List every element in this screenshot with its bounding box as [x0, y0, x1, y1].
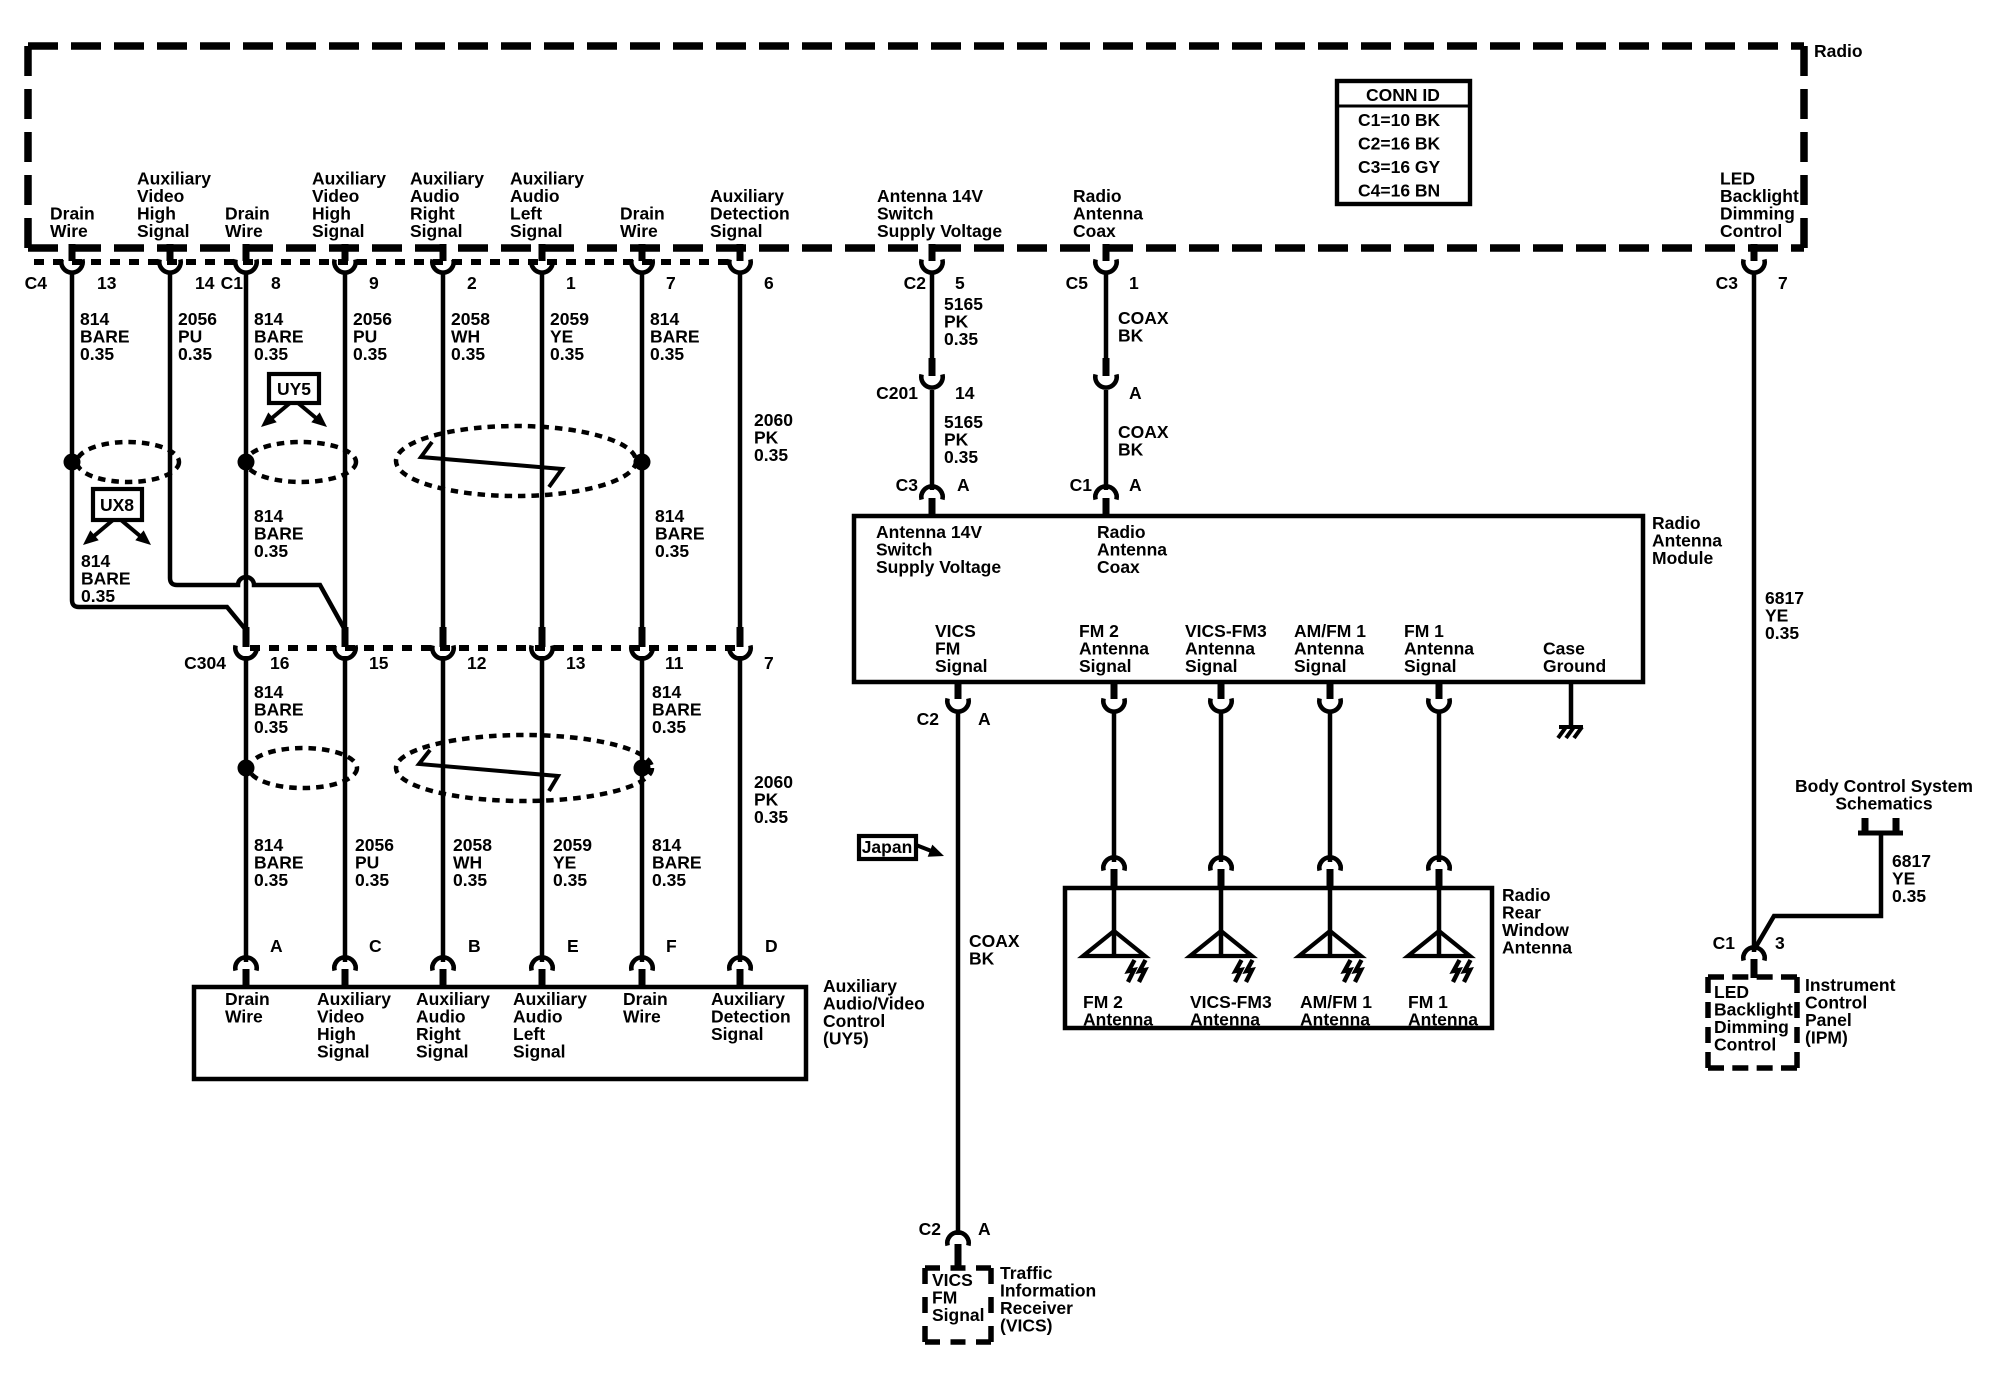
C201 labels: [876, 383, 975, 403]
svg-text:Signal: Signal: [1404, 656, 1457, 676]
svg-text:0.35: 0.35: [553, 870, 587, 890]
svg-text:1: 1: [1129, 273, 1139, 293]
C3-A labels: [896, 475, 970, 495]
connector pin 1 at radio box: [531, 244, 552, 273]
svg-text:6: 6: [764, 273, 774, 293]
rear window antenna box name: [1502, 885, 1572, 958]
wire label 814 BARE: [254, 309, 304, 364]
UY5 pin letters: [270, 936, 778, 956]
wire label 814 BARE mid wire 7: [655, 506, 705, 561]
wire below C304 x=443: [441, 656, 446, 962]
svg-text:C304: C304: [184, 653, 226, 673]
svg-text:Signal: Signal: [513, 1042, 566, 1062]
wire label COAX BK upper: [1118, 308, 1169, 346]
connector below antenna module x=958: [947, 682, 968, 712]
svg-text:Signal: Signal: [510, 221, 563, 241]
svg-text:14: 14: [955, 383, 975, 403]
connector pin 7 at radio box: [1743, 244, 1764, 273]
connector pin 2 at radio box: [432, 244, 453, 273]
svg-text:A: A: [1129, 475, 1142, 495]
svg-text:7: 7: [666, 273, 676, 293]
svg-text:5: 5: [955, 273, 965, 293]
in-line connector dotted strip C4/C1: [34, 259, 731, 265]
module pin label Antenna 14V Switch Supply Voltage: [876, 522, 1001, 577]
UY5 box pin label Auxiliary Audio Left Signal: [513, 989, 587, 1062]
svg-text:0.35: 0.35: [254, 541, 288, 561]
connector C1 pin 3 at instrument panel: [1743, 947, 1764, 978]
svg-text:0.35: 0.35: [655, 541, 689, 561]
C304 row labels: [184, 653, 774, 673]
Traffic Information Receiver dashed box: [925, 1268, 991, 1342]
wire label 814 BARE below C304-11: [652, 682, 702, 737]
svg-text:0.35: 0.35: [754, 445, 788, 465]
svg-text:(UY5): (UY5): [823, 1029, 869, 1049]
UY5 box name: [823, 976, 925, 1049]
svg-text:C1: C1: [221, 273, 244, 293]
svg-text:C2: C2: [904, 273, 927, 293]
twist arrow inside ellipse: [421, 442, 562, 487]
pin label LED Backlight Dimming Control: [1720, 169, 1799, 242]
pin label Drain Wire: [225, 204, 270, 242]
Radio module dashed box: [28, 46, 1804, 248]
connector C304 pin 7: [729, 627, 750, 659]
svg-text:Ground: Ground: [1543, 656, 1606, 676]
svg-text:0.35: 0.35: [353, 344, 387, 364]
svg-text:7: 7: [764, 653, 774, 673]
connector pin 6 at radio box: [729, 244, 750, 273]
svg-text:BK: BK: [1118, 440, 1144, 460]
svg-text:0.35: 0.35: [451, 344, 485, 364]
svg-text:Coax: Coax: [1097, 557, 1140, 577]
connector C304 pin 12: [432, 627, 453, 659]
svg-text:D: D: [765, 936, 778, 956]
junction dot wire x=642: [634, 454, 651, 471]
svg-text:C4: C4: [25, 273, 48, 293]
connector below antenna module x=1439: [1428, 682, 1449, 712]
antenna label FM 1: [1408, 992, 1478, 1030]
UX8 arrow right: [121, 520, 151, 545]
svg-text:Signal: Signal: [711, 1024, 764, 1044]
svg-text:A: A: [957, 475, 970, 495]
wire drain 7 down: [640, 272, 645, 632]
wire 5165 PK upper: [930, 272, 935, 360]
connector at rear window antenna x=1330: [1319, 857, 1340, 889]
svg-text:Signal: Signal: [1185, 656, 1238, 676]
svg-text:A: A: [978, 709, 991, 729]
svg-text:Antenna: Antenna: [1408, 1010, 1478, 1030]
svg-text:Antenna: Antenna: [1502, 938, 1572, 958]
svg-text:(IPM): (IPM): [1805, 1028, 1848, 1048]
svg-text:A: A: [1129, 383, 1142, 403]
twisted pair ellipse 16/15: [249, 748, 357, 788]
svg-text:0.35: 0.35: [650, 344, 684, 364]
connector pin A at UY5 box: [235, 957, 256, 988]
twisted pair ellipse 8/9: [246, 442, 356, 482]
wire radio antenna coax lower: [1104, 390, 1109, 490]
svg-text:Signal: Signal: [312, 221, 365, 241]
svg-text:Control: Control: [1714, 1035, 1776, 1055]
wire label 2056 PU: [178, 309, 217, 364]
pin label Antenna 14V Switch Supply Voltage: [877, 186, 1002, 241]
wire label 5165 PK lower: [944, 412, 983, 467]
wire below C304 x=542: [540, 656, 545, 962]
case ground wire: [1569, 684, 1574, 727]
connector pin 8 at radio box: [235, 244, 256, 273]
UY5 arrow left: [261, 403, 290, 427]
module pin label Radio Antenna Coax: [1097, 522, 1167, 577]
off-page reference bracket: [1858, 818, 1903, 833]
Traffic Information Receiver name: [1000, 1263, 1096, 1336]
antenna symbol x=1330: [1299, 890, 1362, 982]
UY5 option callout box: [269, 374, 319, 403]
pin label Auxiliary Video High Signal: [312, 169, 386, 242]
svg-text:C3: C3: [896, 475, 919, 495]
connector pin 13 at radio box: [61, 244, 82, 273]
connector pin 9 at radio box: [334, 244, 355, 273]
svg-text:UY5: UY5: [277, 379, 311, 399]
connector C304 pin 13: [531, 627, 552, 659]
connector C304 pin 15: [334, 627, 355, 659]
connector at rear window antenna x=1221: [1210, 857, 1231, 889]
connector pin C at UY5 box: [334, 957, 355, 988]
svg-text:A: A: [978, 1219, 991, 1239]
svg-text:BK: BK: [1118, 326, 1144, 346]
svg-text:Radio: Radio: [1814, 41, 1863, 61]
svg-text:0.35: 0.35: [355, 870, 389, 890]
wire below C304 x=740: [738, 656, 743, 962]
svg-text:0.35: 0.35: [1892, 886, 1926, 906]
antenna wire x=1114: [1112, 712, 1117, 862]
svg-text:0.35: 0.35: [178, 344, 212, 364]
svg-text:B: B: [468, 936, 481, 956]
svg-text:0.35: 0.35: [80, 344, 114, 364]
connector below antenna module x=1221: [1210, 682, 1231, 712]
wire label 814 BARE: [80, 309, 130, 364]
svg-text:12: 12: [467, 653, 487, 673]
wire radio antenna coax upper: [1104, 272, 1109, 360]
connector C304 pin 11: [631, 627, 652, 659]
wire label 2056 PU lower: [355, 835, 394, 890]
Japan callout box: [859, 836, 916, 859]
svg-text:E: E: [567, 936, 579, 956]
module pin label FM 2: [1079, 621, 1149, 676]
pin label Auxiliary Video High Signal: [137, 169, 211, 242]
junction dot lower x=246: [238, 760, 255, 777]
connector C2 pin A at VICS receiver: [947, 1232, 968, 1269]
wire label 6817 YE upper: [1765, 588, 1804, 643]
svg-text:Supply Voltage: Supply Voltage: [877, 221, 1002, 241]
connector at rear window antenna x=1114: [1103, 857, 1124, 889]
wire label 814 BARE: [650, 309, 700, 364]
svg-text:UX8: UX8: [100, 495, 134, 515]
connector pin B at UY5 box: [432, 957, 453, 988]
svg-text:C2: C2: [919, 1219, 942, 1239]
module pin label FM 1: [1404, 621, 1474, 676]
svg-text:15: 15: [369, 653, 389, 673]
wire 2059 YE 1 down: [540, 272, 545, 632]
svg-text:Signal: Signal: [932, 1305, 985, 1325]
svg-text:0.35: 0.35: [754, 807, 788, 827]
svg-text:C1: C1: [1713, 933, 1736, 953]
svg-text:Supply Voltage: Supply Voltage: [876, 557, 1001, 577]
UX8 arrow left: [83, 520, 113, 545]
antenna label AM/FM 1: [1300, 992, 1372, 1030]
UY5 box pin label Drain Wire: [225, 989, 270, 1027]
ground symbol: [1558, 727, 1583, 738]
wire label 814 BARE lower: [254, 835, 304, 890]
svg-text:C2=16 BK: C2=16 BK: [1358, 134, 1441, 154]
connector C304 pin 16: [235, 627, 256, 659]
svg-text:3: 3: [1775, 933, 1785, 953]
svg-text:16: 16: [270, 653, 290, 673]
module name label: [1652, 513, 1722, 568]
svg-text:Signal: Signal: [317, 1042, 370, 1062]
svg-text:Signal: Signal: [1294, 656, 1347, 676]
pin label Auxiliary Detection Signal: [710, 186, 790, 241]
svg-text:14: 14: [195, 273, 215, 293]
connector below antenna module x=1330: [1319, 682, 1340, 712]
Radio Antenna Module box: [854, 516, 1643, 682]
wire 2060 PK 6 down: [738, 272, 743, 632]
wire label 814 BARE bottom wire 13: [81, 551, 131, 606]
svg-text:0.35: 0.35: [652, 717, 686, 737]
in-line connector dotted strip C304: [250, 645, 744, 651]
svg-text:0.35: 0.35: [652, 870, 686, 890]
antenna label FM 2: [1083, 992, 1153, 1030]
wire 2058 WH 2 down: [441, 272, 446, 632]
svg-text:Signal: Signal: [710, 221, 763, 241]
UY5 arrow right: [298, 403, 327, 427]
svg-text:11: 11: [665, 653, 684, 673]
in-line coax connector A: [1095, 358, 1116, 388]
svg-text:C1: C1: [1070, 475, 1093, 495]
wire below C304 x=246: [244, 656, 249, 962]
UY5 box pin label Auxiliary Video High Signal: [317, 989, 391, 1062]
svg-text:F: F: [666, 936, 677, 956]
svg-text:Control: Control: [1720, 221, 1782, 241]
C1-A labels: [1070, 475, 1142, 495]
junction dot wire x=246: [238, 454, 255, 471]
wire label 2060 PK: [754, 410, 793, 465]
wire label COAX BK lower: [1118, 422, 1169, 460]
Japan arrow: [916, 845, 944, 857]
svg-text:Antenna: Antenna: [1300, 1010, 1370, 1030]
twisted pair ellipse 13/14: [77, 442, 179, 482]
antenna wire x=1330: [1328, 712, 1333, 862]
svg-text:Signal: Signal: [935, 656, 988, 676]
svg-text:0.35: 0.35: [254, 870, 288, 890]
svg-text:Signal: Signal: [416, 1042, 469, 1062]
VICS FM Signal pin label: [932, 1270, 985, 1325]
pin label Drain Wire: [620, 204, 665, 242]
antenna wire x=1439: [1437, 712, 1442, 862]
twist arrow inside lower ellipse: [419, 750, 558, 791]
svg-text:0.35: 0.35: [81, 586, 115, 606]
svg-text:A: A: [270, 936, 283, 956]
junction dot lower x=642: [634, 760, 651, 777]
connector at rear window antenna x=1439: [1428, 857, 1449, 889]
connector pin 14 at radio box: [159, 244, 180, 273]
module pin label VICS: [935, 621, 988, 676]
UY5 box pin label Auxiliary Detection Signal: [711, 989, 791, 1044]
C2-A labels below module: [917, 709, 991, 729]
svg-text:Antenna: Antenna: [1083, 1010, 1153, 1030]
svg-text:0.35: 0.35: [453, 870, 487, 890]
svg-text:C1=10 BK: C1=10 BK: [1358, 110, 1441, 130]
svg-text:Signal: Signal: [137, 221, 190, 241]
svg-text:Signal: Signal: [410, 221, 463, 241]
antenna label VICS-FM3: [1190, 992, 1272, 1030]
svg-text:C4=16 BN: C4=16 BN: [1358, 181, 1440, 201]
LED pin label: [1714, 982, 1793, 1055]
pin label Auxiliary Audio Right Signal: [410, 169, 484, 242]
svg-text:Wire: Wire: [620, 221, 658, 241]
connector pin 7 at radio box: [631, 244, 652, 273]
svg-text:0.35: 0.35: [944, 447, 978, 467]
svg-text:C5: C5: [1066, 273, 1089, 293]
wire label 2058 WH lower: [453, 835, 492, 890]
UX8 option callout box: [93, 489, 142, 520]
svg-text:8: 8: [271, 273, 281, 293]
svg-text:C3: C3: [1716, 273, 1739, 293]
svg-text:0.35: 0.35: [550, 344, 584, 364]
svg-text:BK: BK: [969, 949, 995, 969]
svg-text:(VICS): (VICS): [1000, 1316, 1053, 1336]
wire 5165 PK lower: [930, 390, 935, 490]
LED Backlight Dimming Control dashed box: [1708, 977, 1797, 1068]
connector C201 pin 14: [921, 358, 942, 388]
wire label 814 BARE below C304-16: [254, 682, 304, 737]
svg-text:CONN ID: CONN ID: [1366, 85, 1440, 105]
svg-text:Module: Module: [1652, 548, 1714, 568]
svg-text:C2: C2: [917, 709, 940, 729]
UY5 box pin label Drain Wire: [623, 989, 668, 1027]
svg-text:2: 2: [467, 273, 477, 293]
wire from body control system: [1754, 835, 1881, 950]
VICS FM signal coax wire: [956, 712, 961, 1235]
Body Control System Schematics reference: [1795, 776, 1973, 814]
svg-text:7: 7: [1778, 273, 1788, 293]
svg-text:C201: C201: [876, 383, 918, 403]
svg-text:0.35: 0.35: [944, 329, 978, 349]
svg-text:0.35: 0.35: [254, 717, 288, 737]
connector row labels: [25, 273, 1788, 293]
Instrument Control Panel name: [1805, 975, 1896, 1048]
svg-text:0.35: 0.35: [254, 344, 288, 364]
wire label 2059 YE lower: [553, 835, 592, 890]
wire drain C4-13 to C304-16: [72, 272, 246, 630]
CONN ID table: [1337, 81, 1470, 204]
svg-text:Wire: Wire: [225, 1007, 263, 1027]
wire label 5165 PK upper: [944, 294, 983, 349]
connector pin 5 at radio box: [921, 244, 942, 273]
pin label Radio Antenna Coax: [1073, 186, 1143, 241]
UY5 box pin label Auxiliary Audio Right Signal: [416, 989, 490, 1062]
wire label 814 BARE mid wire 8: [254, 506, 304, 561]
wire label 2058 WH: [451, 309, 490, 364]
wire 2056 PU 9 down: [343, 272, 348, 632]
antenna symbol x=1221: [1190, 890, 1253, 982]
Radio Rear Window Antenna box: [1065, 888, 1492, 1028]
svg-text:9: 9: [369, 273, 379, 293]
svg-text:Wire: Wire: [50, 221, 88, 241]
antenna wire x=1221: [1219, 712, 1224, 862]
svg-text:Wire: Wire: [623, 1007, 661, 1027]
module pin label Case Ground: [1543, 639, 1606, 677]
svg-text:Japan: Japan: [862, 837, 913, 857]
wire label 6817 YE lower: [1892, 851, 1931, 906]
wire label 2059 YE: [550, 309, 589, 364]
svg-text:Wire: Wire: [225, 221, 263, 241]
connector below antenna module x=1114: [1103, 682, 1124, 712]
C1-3 labels at instrument panel: [1713, 933, 1785, 953]
wire label 2056 PU: [353, 309, 392, 364]
svg-text:Antenna: Antenna: [1190, 1010, 1260, 1030]
svg-text:Schematics: Schematics: [1835, 794, 1933, 814]
connector C3 pin A at antenna module: [921, 486, 942, 517]
coax A label: [1129, 383, 1142, 403]
svg-text:C: C: [369, 936, 382, 956]
wire drain C1-8 down: [244, 272, 249, 632]
svg-text:0.35: 0.35: [1765, 623, 1799, 643]
Auxiliary Audio/Video Control box: [194, 987, 806, 1079]
connector pin E at UY5 box: [531, 957, 552, 988]
wire below C304 x=345: [343, 656, 348, 962]
module pin label VICS-FM3: [1185, 621, 1267, 676]
connector pin D at UY5 box: [729, 957, 750, 988]
wire label 814 BARE lower: [652, 835, 702, 890]
junction dot wire x=72: [64, 454, 81, 471]
pin label Drain Wire: [50, 204, 95, 242]
C2-A labels at VICS receiver: [919, 1219, 991, 1239]
module pin label AM/FM 1: [1294, 621, 1366, 676]
svg-text:C3=16 GY: C3=16 GY: [1358, 157, 1441, 177]
connector C1 pin A at antenna module: [1095, 486, 1116, 517]
antenna symbol x=1114: [1083, 890, 1146, 982]
wire label COAX BK vics: [969, 931, 1020, 969]
wire label 2060 PK lower: [754, 772, 793, 827]
twisted group ellipse lower: [396, 735, 652, 801]
antenna symbol x=1439: [1408, 890, 1471, 982]
svg-text:13: 13: [97, 273, 117, 293]
svg-text:1: 1: [566, 273, 576, 293]
svg-text:Coax: Coax: [1073, 221, 1116, 241]
svg-text:13: 13: [566, 653, 586, 673]
wire aux video high 2056 PU 14 to C304-15: [170, 272, 345, 630]
LED backlight dimming wire: [1752, 272, 1757, 952]
twisted group ellipse 2/1/7: [396, 426, 636, 496]
connector pin F at UY5 box: [631, 957, 652, 988]
wire below C304 x=642: [640, 656, 645, 962]
connector pin 1 at radio box: [1095, 244, 1116, 273]
svg-text:Signal: Signal: [1079, 656, 1132, 676]
pin label Auxiliary Audio Left Signal: [510, 169, 584, 242]
